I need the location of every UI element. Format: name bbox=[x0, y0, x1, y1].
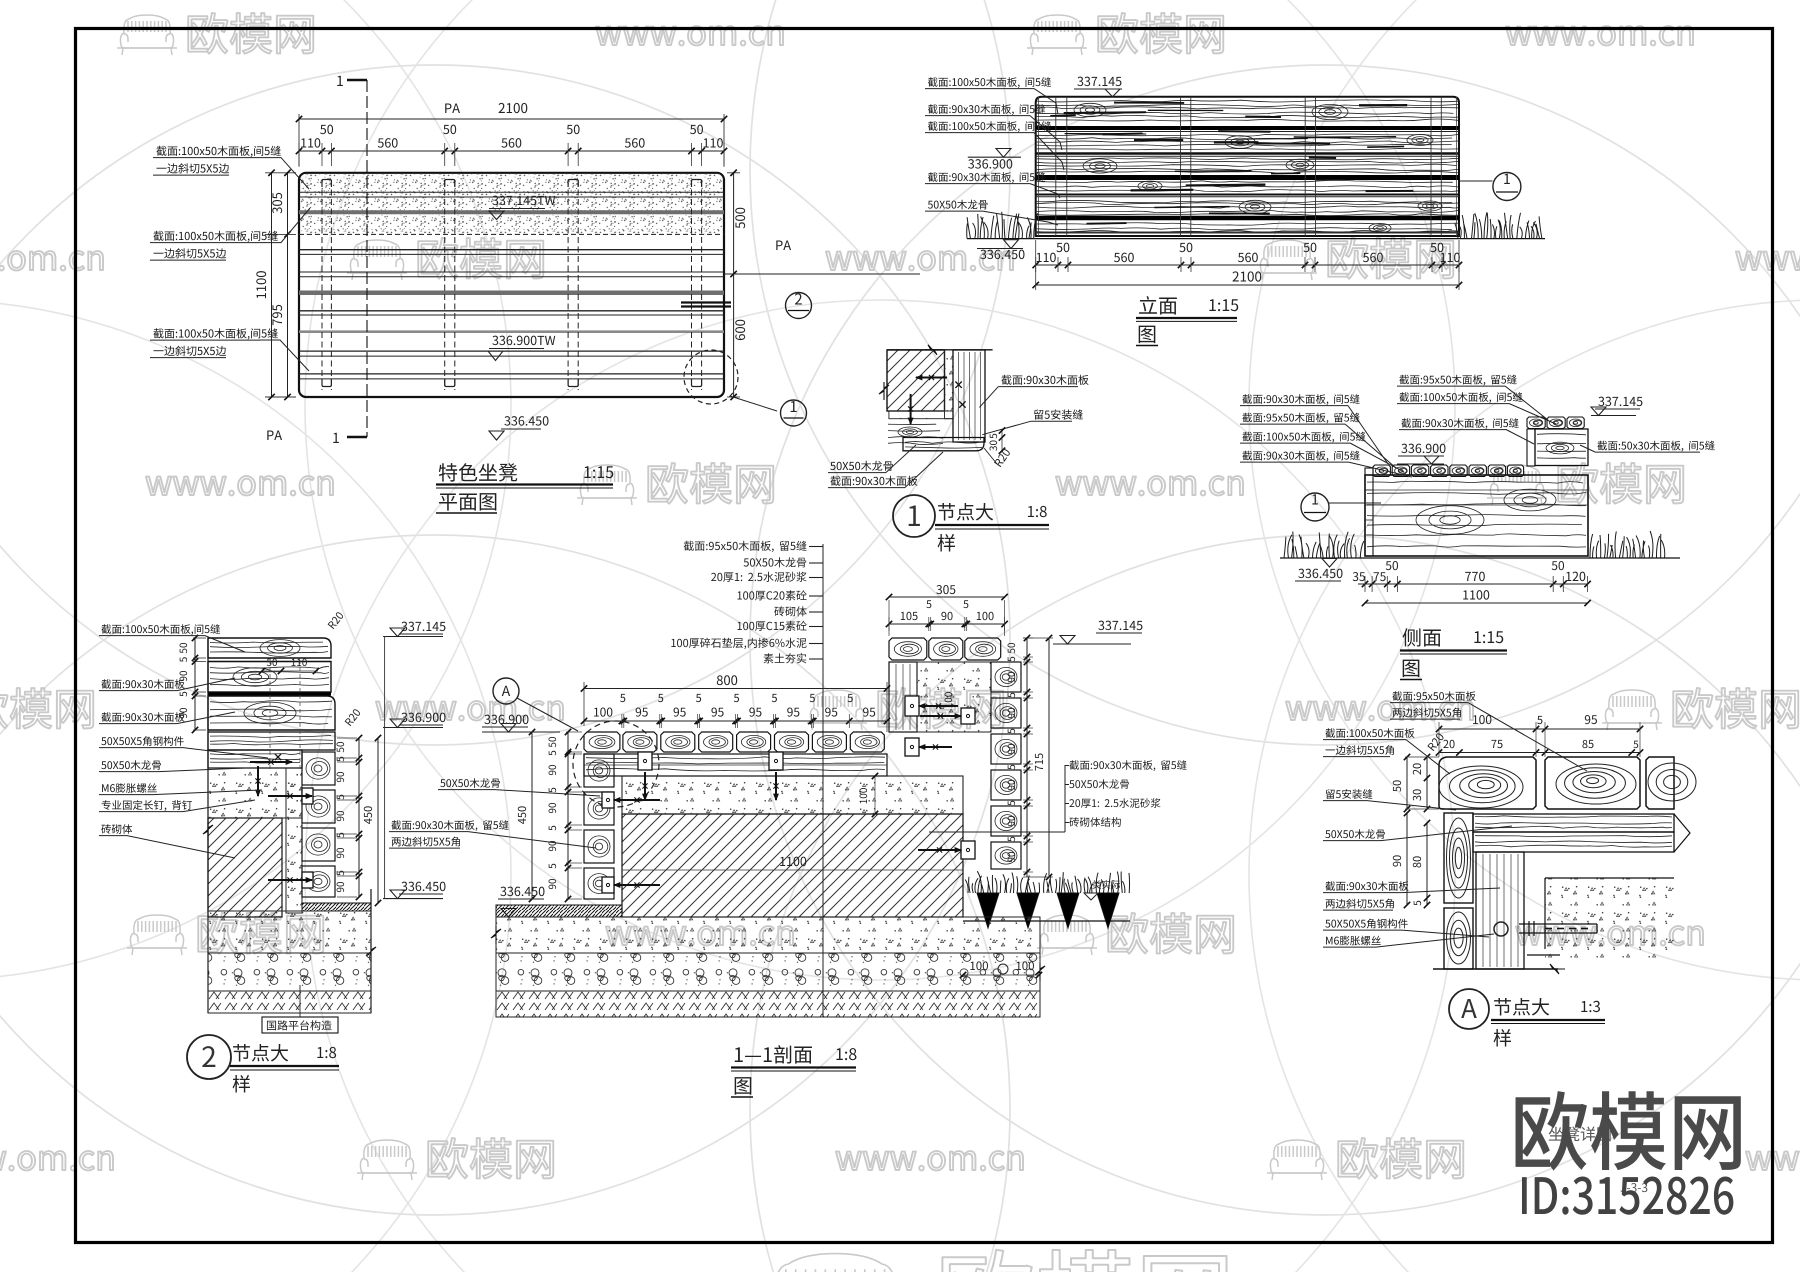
section plates and bolts bbox=[638, 752, 652, 770]
detail2 left dims bbox=[193, 637, 206, 639]
elevation ground line bbox=[967, 238, 1545, 240]
section left vertical dims bbox=[566, 731, 582, 733]
detail2 foundation layers bbox=[207, 638, 209, 1013]
detail marker circled 1 bbox=[781, 400, 807, 426]
watermark giant circles bbox=[0, 0, 1010, 745]
section mark 1 top bbox=[337, 76, 343, 86]
section sub dims bbox=[584, 720, 887, 722]
PA annotations bbox=[776, 240, 791, 250]
detail A rails bbox=[1473, 814, 1674, 832]
section right column dims bbox=[1023, 637, 1033, 639]
detail1 label 90x30 bottom bbox=[830, 476, 917, 486]
detail A left dims bbox=[1406, 757, 1408, 809]
section mortar band bbox=[622, 776, 963, 814]
section platform layers bbox=[496, 905, 622, 917]
detail1 label wood joist bbox=[830, 461, 893, 471]
section 100 dia 100 dim bbox=[963, 974, 1039, 976]
elevation label 50x50 bbox=[928, 200, 988, 210]
detail1 small dims 5/30 bbox=[1001, 431, 1003, 451]
plan spot elevation 337.145TW bbox=[492, 196, 555, 205]
section backrest left board bbox=[889, 662, 917, 732]
plan plank joint lines bbox=[299, 191, 724, 193]
detail2 mortar/concrete layer bbox=[208, 768, 302, 818]
plan right dims 500/600 bbox=[727, 172, 740, 174]
detail1 label install gap bbox=[1034, 409, 1083, 419]
side spot 337.145 bbox=[1598, 397, 1642, 406]
section rails under planks bbox=[584, 754, 887, 776]
elevation grass right bbox=[1455, 212, 1542, 238]
watermark tile: www.om.cn bbox=[1736, 251, 1800, 270]
elevation spot 336.900 bbox=[968, 159, 1012, 168]
section spot 336.900 bbox=[484, 715, 528, 724]
detail A plank partial bbox=[1646, 757, 1674, 809]
section ground right: grass and spikes bbox=[963, 920, 1130, 922]
detail1 bottom rail bbox=[903, 438, 984, 451]
labels between detail2 and section bbox=[440, 778, 500, 788]
detail2 right dims bbox=[337, 737, 357, 739]
section 100 rotated dim bbox=[860, 788, 868, 803]
watermark tile: sofa + brand text bbox=[1487, 465, 1547, 505]
plan batten dashed verticals bbox=[321, 180, 323, 390]
plan segment dims bbox=[299, 150, 724, 152]
detail A left log bbox=[1444, 813, 1473, 903]
section spot 337.145 bbox=[1098, 621, 1142, 630]
plan spot elevation 336.450 bbox=[504, 416, 548, 425]
elevation label 90x30 bbox=[928, 104, 1045, 115]
detail1 title circle 1 bbox=[893, 495, 935, 537]
detail2 title bbox=[187, 1035, 231, 1079]
detail A bolt bbox=[1494, 922, 1508, 936]
elevation spot 337.145 top bbox=[1077, 77, 1121, 86]
elevation label 100x50 mid bbox=[928, 121, 1051, 132]
side view title bbox=[1403, 628, 1441, 646]
plan spot elevation 336.900TW bbox=[492, 336, 555, 345]
DETAIL 2: backrest plank stack bbox=[208, 638, 331, 658]
watermark tile: www.om.cn bbox=[146, 476, 333, 495]
section dim 715 bbox=[1048, 638, 1050, 877]
section right label group bbox=[929, 831, 1065, 833]
plan leader label group 3 bbox=[153, 328, 277, 339]
watermark tile: www.om.cn bbox=[1516, 926, 1703, 945]
section dim 305 bbox=[936, 585, 955, 594]
plan stippled sand band bbox=[301, 174, 722, 235]
detail2 base strip bbox=[302, 903, 371, 911]
side top labels bbox=[1399, 375, 1516, 386]
side view backrest cap bbox=[1527, 417, 1545, 429]
plan overall dim 2100 bbox=[298, 114, 300, 167]
elevation overall dim 2100 bbox=[1036, 284, 1459, 286]
side dims bbox=[1358, 583, 1588, 585]
section spot 336.450 bbox=[500, 887, 544, 896]
detail A plank 95x50 bbox=[1545, 757, 1640, 809]
watermark tile: www.om.cn bbox=[1746, 1151, 1800, 1170]
plan title bbox=[439, 463, 517, 481]
dashed detail callout circle bbox=[684, 350, 738, 404]
section backrest core bbox=[917, 662, 991, 732]
watermark tile: sofa + brand text bbox=[1037, 915, 1097, 955]
PLAN VIEW: bench outline bbox=[299, 173, 724, 397]
elevation grass left bbox=[967, 212, 1038, 239]
section dim 800 bbox=[584, 688, 887, 690]
side left labels bbox=[1242, 394, 1359, 405]
SIDE VIEW: seat body bbox=[1365, 475, 1588, 556]
section right batten column bbox=[991, 662, 1021, 692]
watermark tile: www.om.cn bbox=[1286, 701, 1473, 720]
section vertical reference line bbox=[822, 544, 824, 1017]
detail2 R20 labels bbox=[327, 611, 344, 629]
section mark 1 bottom bbox=[333, 433, 339, 443]
ELEVATION: bench body bbox=[1036, 97, 1459, 236]
detail2 inner small dims 50/110 bbox=[262, 670, 318, 672]
side view ground line bbox=[1280, 557, 1680, 559]
detail1 concrete strip bbox=[945, 350, 954, 419]
elevation wood grain bbox=[1037, 100, 1458, 121]
section backrest cap bbox=[889, 638, 927, 660]
watermark tile: www.om.cn bbox=[596, 26, 783, 45]
detail2 spot 337.145 bbox=[401, 622, 445, 631]
section left batten column bbox=[584, 754, 614, 787]
detail2 spot 336.450 bbox=[401, 882, 445, 891]
detail1 seat plank grain bbox=[888, 424, 943, 444]
elevation title bbox=[1139, 296, 1177, 315]
watermark tile: sofa + brand text bbox=[807, 690, 867, 730]
watermark tile: www.om.cn bbox=[0, 1151, 113, 1170]
detail1 vertical wood board bbox=[953, 350, 985, 442]
watermark tile: sofa + brand text bbox=[347, 240, 407, 280]
elevation batten verticals bbox=[1055, 97, 1057, 236]
plan left dims 1100 / 305+795 bbox=[265, 172, 296, 174]
side spot 336.450 bbox=[1298, 569, 1342, 578]
elevation label 90x30 lower bbox=[928, 172, 1045, 183]
side view left edge battens bbox=[1365, 468, 1373, 556]
detail1 R20 bbox=[994, 448, 1011, 467]
elevation spot 336.450 bbox=[980, 250, 1024, 259]
detail2 masonry hatch bbox=[208, 818, 282, 917]
detail1 title bbox=[938, 503, 993, 520]
section seat plank row bbox=[584, 732, 620, 752]
section line 1-1 through plan bbox=[366, 80, 368, 437]
watermark tile: www.om.cn bbox=[1506, 26, 1693, 45]
watermark tile: www.om.cn bbox=[1056, 476, 1243, 495]
watermark tile: www.om.cn bbox=[836, 1151, 1023, 1170]
detail2 angle plates and bolts bbox=[302, 788, 313, 804]
watermark tile: sofa + brand text bbox=[117, 15, 177, 55]
underlying sheet caption (partially covered) bbox=[1549, 1127, 1611, 1142]
watermark tile: sofa + brand text bbox=[1027, 15, 1087, 55]
detail2 seat planks bbox=[208, 732, 335, 750]
detail A top dims bbox=[1439, 728, 1640, 730]
watermark tile: sofa + brand text bbox=[127, 915, 187, 955]
watermark tile: sofa + brand text bbox=[1267, 1140, 1327, 1180]
section masonry bbox=[622, 814, 963, 917]
watermark tile: www.om.cn bbox=[0, 251, 103, 270]
DETAIL 1: masonry hatch block bbox=[887, 350, 945, 411]
watermark tile: sofa + brand text bbox=[357, 1140, 417, 1180]
DETAIL A: plank 100x50 bbox=[1439, 757, 1536, 809]
big gray watermark brand text bbox=[1516, 1091, 1741, 1171]
side spot 336.900 bbox=[1401, 444, 1445, 453]
detail A title bbox=[1449, 989, 1489, 1029]
detail A concrete bbox=[1545, 878, 1674, 964]
line to section marker 2 bbox=[724, 273, 920, 275]
side view grass bbox=[1284, 532, 1364, 558]
watermark tile: sofa + brand text bbox=[1602, 690, 1662, 730]
detail1 label 90x30 bbox=[1001, 375, 1088, 385]
detail1 fasteners bbox=[916, 377, 947, 379]
watermark tile: sofa + brand text bbox=[1257, 240, 1317, 280]
detail2 left labels bbox=[101, 624, 220, 635]
elevation plank gap lines bbox=[1036, 126, 1459, 130]
big gray watermark ID bbox=[1522, 1177, 1733, 1215]
plan leader label group 1 bbox=[156, 146, 280, 157]
side right label 50x30 bbox=[1597, 441, 1714, 452]
detail marker circled 2 bbox=[786, 293, 812, 319]
side view seat top plank row bbox=[1373, 465, 1390, 477]
elevation detail marker circled 1 bbox=[1459, 180, 1493, 182]
watermark tile: sofa + brand text bbox=[577, 465, 637, 505]
watermark tile: www.om.cn bbox=[826, 251, 1013, 270]
elevation label 100x50 top bbox=[928, 77, 1051, 88]
plan leader label group 2 bbox=[153, 231, 277, 242]
side view backrest body bbox=[1527, 429, 1535, 466]
side detail marker circled 1 bbox=[1301, 493, 1329, 521]
section callout A bbox=[493, 678, 519, 704]
detail2 front battens bbox=[302, 752, 335, 785]
detail A labels bbox=[1392, 691, 1475, 701]
watermark tile: www.om.cn bbox=[606, 926, 793, 945]
big bottom watermark tile (clipped by page edge) bbox=[757, 1254, 913, 1272]
detail A ground line bbox=[1433, 968, 1558, 970]
detail2 boxed note bbox=[262, 1017, 338, 1033]
SECTION 1-1: top label stack bbox=[684, 541, 807, 552]
watermark tile: www.om.cn bbox=[376, 701, 563, 720]
section cut double mark bbox=[681, 301, 731, 303]
detail2 spot 336.900 bbox=[401, 713, 445, 722]
elevation dims row bbox=[1036, 264, 1459, 266]
detail A vertical boards bbox=[1476, 852, 1524, 969]
detail A lower-left dims bbox=[1406, 813, 1408, 905]
section title bbox=[735, 1045, 812, 1063]
